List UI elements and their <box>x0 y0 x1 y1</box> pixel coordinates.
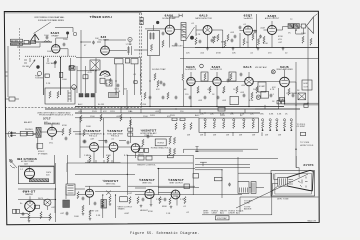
mid tuner parts <box>109 78 120 87</box>
hv top wires <box>18 163 56 222</box>
osc vertical wire <box>70 58 72 90</box>
svg-text:105V: 105V <box>150 115 155 117</box>
antenna terminal boxes <box>11 39 23 42</box>
svg-text:6.8K: 6.8K <box>269 114 274 116</box>
board left small marks <box>196 147 199 152</box>
fine tuning arrow <box>29 60 35 68</box>
6au6 wires <box>170 17 182 48</box>
svg-text:VERT: VERT <box>138 147 144 149</box>
crt pin dots <box>292 179 293 185</box>
junction dots sound bus <box>207 47 284 48</box>
bottom strip parts <box>66 210 92 220</box>
svg-text:ADJ: ADJ <box>236 211 240 214</box>
svg-text:680K: 680K <box>162 206 167 208</box>
svg-text:1 MEG: 1 MEG <box>156 199 163 201</box>
svg-text:CH SEL: CH SEL <box>22 66 30 68</box>
if transformer 2 <box>229 72 236 81</box>
svg-text:½6SN7GT: ½6SN7GT <box>141 128 157 132</box>
damper area wires <box>18 190 55 218</box>
svg-text:HEIGHT CONTROL: HEIGHT CONTROL <box>137 165 156 167</box>
rf section caps <box>46 36 66 47</box>
svg-text:AGC: AGC <box>78 103 83 106</box>
svg-text:3.3K: 3.3K <box>277 114 282 116</box>
svg-text:PIN 4,5,6: PIN 4,5,6 <box>111 136 119 138</box>
sound bus extension <box>183 47 195 49</box>
svg-text:21YP4: 21YP4 <box>303 163 313 167</box>
video amp peaking box <box>261 91 269 98</box>
mixer column top bus <box>77 70 94 72</box>
strip divider wire <box>180 58 318 60</box>
svg-text:M: M <box>129 39 131 41</box>
tuner top boxes right <box>140 18 143 21</box>
svg-text:B+135: B+135 <box>98 104 105 106</box>
svg-text:250V: 250V <box>170 115 175 117</box>
svg-text:10K: 10K <box>232 53 236 55</box>
damper right dark box <box>63 200 70 208</box>
tuner bottom left box <box>9 97 15 101</box>
junction dots rails <box>95 106 249 114</box>
tuner left drop <box>7 46 9 97</box>
sound trap parts <box>154 73 163 84</box>
radio transformer <box>36 127 41 137</box>
power plug <box>8 131 16 138</box>
CRT internal marks <box>298 177 308 188</box>
svg-text:.0047: .0047 <box>124 213 130 215</box>
sync grid caps <box>84 140 130 145</box>
tube V17 vert osc <box>145 189 154 198</box>
peaking coil box <box>280 97 285 101</box>
video amp rail up <box>295 62 297 104</box>
osc boxes above <box>115 59 124 64</box>
6al5 wires <box>196 25 223 48</box>
svg-text:OF 6SN7: OF 6SN7 <box>297 126 307 128</box>
svg-text:1st VIDEO IF: 1st VIDEO IF <box>185 68 197 71</box>
svg-text:470K: 470K <box>216 53 221 55</box>
mixer bottom boxes <box>79 94 94 98</box>
tuner dashed enclosure <box>5 13 142 107</box>
svg-text:AM ANT: AM ANT <box>24 121 32 124</box>
sound section components <box>213 33 265 43</box>
mixer grid wire <box>81 30 101 58</box>
svg-text:54C9: 54C9 <box>38 198 44 200</box>
svg-text:ION TRAP: ION TRAP <box>217 217 227 220</box>
B+ distribution resistor board <box>199 118 259 132</box>
svg-text:RATIO DET: RATIO DET <box>172 45 184 48</box>
CRT gun <box>278 177 288 186</box>
crt socket pins <box>289 180 292 185</box>
speaker cone <box>306 17 313 34</box>
mixer cap <box>92 41 95 45</box>
contrast box <box>298 93 306 100</box>
top coil <box>179 14 182 17</box>
CRT funnel <box>288 170 314 191</box>
tube V18 vert output <box>171 190 180 199</box>
1st IF transformer box <box>148 31 160 56</box>
svg-text:1W: 1W <box>278 135 281 137</box>
sound takeoff transformer <box>181 23 186 41</box>
tube V11 <box>90 143 99 152</box>
test circle X <box>271 70 275 74</box>
twin lead lower wire <box>17 43 40 47</box>
wire damper to vert <box>67 172 85 189</box>
svg-text:HOR: HOR <box>304 83 309 85</box>
third stage column <box>130 120 132 143</box>
wire rf plate <box>56 35 68 57</box>
svg-text:47K: 47K <box>272 87 276 89</box>
crt bottom wires <box>272 186 278 197</box>
shield dot <box>66 32 69 35</box>
svg-text:CONTRAST: CONTRAST <box>286 92 298 95</box>
svg-text:100K: 100K <box>74 216 79 218</box>
4.5 MC trap box <box>258 82 266 92</box>
sync feed parts <box>83 129 86 143</box>
speaker wires <box>296 27 304 35</box>
yoke plug boxes <box>238 182 249 194</box>
svg-text:18K: 18K <box>260 114 264 116</box>
left border ticks <box>5 72 8 76</box>
tube V13 <box>131 144 140 153</box>
border frame <box>4 11 319 225</box>
mixer box a <box>83 75 88 79</box>
third stage boxes <box>128 128 133 131</box>
vert enclosure top <box>67 163 193 172</box>
bottom component clusters <box>77 192 172 209</box>
coil tap row <box>25 55 76 57</box>
rail fuse box <box>218 108 225 112</box>
svg-text:FOR A SECTOR PANEL WIRES: FOR A SECTOR PANEL WIRES <box>38 19 65 22</box>
radio row wire <box>5 133 36 135</box>
left boxes <box>13 209 16 213</box>
vert section top rail <box>127 155 193 157</box>
hv cage box marks <box>68 186 74 194</box>
svg-text:IF TRANS: IF TRANS <box>38 152 48 155</box>
diagonal wire <box>236 174 308 208</box>
svg-text:250V: 250V <box>92 111 97 113</box>
svg-text:VERT OSC: VERT OSC <box>142 182 152 184</box>
video out box <box>302 80 312 90</box>
right rails <box>284 103 318 105</box>
sound section wiring <box>195 47 318 49</box>
svg-text:CENT: CENT <box>212 212 218 214</box>
HV lead hatched <box>29 179 48 182</box>
balun boxes on antenna wire <box>24 40 29 43</box>
trimmer circle <box>73 32 77 36</box>
diagonal adj <box>187 27 195 39</box>
svg-text:SOUND TRAP: SOUND TRAP <box>152 68 166 71</box>
tube V19 sync inv <box>86 189 94 197</box>
svg-text:.0047: .0047 <box>260 28 266 30</box>
svg-text:270K: 270K <box>301 33 306 35</box>
tuner if can drop <box>95 70 127 109</box>
vert wires <box>78 186 177 205</box>
svg-text:Figure 55. Schematic Diagram.: Figure 55. Schematic Diagram. <box>130 231 200 236</box>
svg-text:OSC MIXER: OSC MIXER <box>98 39 109 41</box>
svg-text:10K: 10K <box>95 38 99 40</box>
tube V12 <box>109 143 118 152</box>
svg-text:ADJ: ADJ <box>220 211 224 214</box>
ratio det transformer hatch <box>181 25 185 38</box>
svg-text:135V: 135V <box>110 111 115 113</box>
audio coupling <box>239 26 260 46</box>
svg-text:DAMPER: DAMPER <box>25 193 34 196</box>
long wires mid <box>133 136 172 138</box>
vert output transformer <box>120 197 128 202</box>
svg-text:2W: 2W <box>239 135 242 137</box>
voice coil <box>301 24 306 28</box>
takeoff drop wire <box>183 40 185 107</box>
svg-text:MA-1579: MA-1579 <box>308 220 317 223</box>
svg-text:TUNING: TUNING <box>35 77 43 79</box>
video if wiring <box>191 72 285 107</box>
tube V14 radio <box>48 127 57 136</box>
bottom boxes row <box>109 93 119 98</box>
svg-text:470K: 470K <box>263 43 268 45</box>
svg-text:HORIZ COILS: HORIZ COILS <box>300 145 314 147</box>
svg-text:1 MEG: 1 MEG <box>84 155 91 157</box>
svg-text:YOKE: YOKE <box>244 203 250 205</box>
svg-text:100K: 100K <box>47 51 52 53</box>
svg-text:47K: 47K <box>156 89 160 91</box>
svg-text:PIN 1,2,3: PIN 1,2,3 <box>145 135 153 137</box>
svg-text:PIN 1,2,3: PIN 1,2,3 <box>89 136 97 138</box>
svg-text:VIDEO AMPLIFIER: VIDEO AMPLIFIER <box>276 68 293 71</box>
svg-text:OUT: OUT <box>304 87 309 89</box>
svg-text:1W: 1W <box>252 135 255 137</box>
svg-text:2W: 2W <box>213 135 216 137</box>
svg-text:47K: 47K <box>103 111 107 113</box>
cap cluster <box>54 60 57 64</box>
rf top wire <box>55 28 73 33</box>
svg-text:1 TVM: 1 TVM <box>125 44 131 46</box>
svg-text:VID DET AGC: VID DET AGC <box>255 66 268 69</box>
svg-text:B+250: B+250 <box>140 104 147 106</box>
box left bottom <box>100 78 105 83</box>
hold control chains <box>169 137 176 155</box>
6sq7 wires <box>240 31 257 48</box>
if interstage transformers <box>201 72 208 81</box>
svg-text:HV RECTIFIER: HV RECTIFIER <box>21 161 35 163</box>
svg-text:5717: 5717 <box>43 117 51 121</box>
vert area extra <box>101 200 107 209</box>
hv cage right box <box>66 184 75 195</box>
vert section wiring <box>55 155 194 195</box>
osc box <box>45 88 75 104</box>
tuner feed resistors <box>80 114 122 122</box>
6j6 plate wires <box>105 40 130 51</box>
svg-text:22K: 22K <box>104 84 108 86</box>
svg-text:25K: 25K <box>200 114 204 116</box>
osc verticals <box>116 58 141 95</box>
osc component mid <box>125 59 129 64</box>
svg-text:2.2K: 2.2K <box>180 199 185 201</box>
IF strip components <box>182 73 258 94</box>
if feed wire <box>134 25 165 50</box>
yoke wire <box>249 187 264 189</box>
junction dots tuner <box>43 39 309 200</box>
box bottom ticks <box>88 160 112 163</box>
IF can at tuner output <box>90 60 100 70</box>
decoupling row <box>149 96 220 100</box>
svg-text:1W: 1W <box>226 135 229 137</box>
svg-text:TRANS: TRANS <box>118 208 126 211</box>
box on wire 43 <box>45 74 49 77</box>
svg-text:12K: 12K <box>250 114 254 116</box>
tuner top line <box>5 12 142 14</box>
svg-text:DRIVE: DRIVE <box>229 212 236 214</box>
sync bottom resistors <box>89 156 109 163</box>
right components of radio row <box>62 128 71 140</box>
svg-text:CENT: CENT <box>203 212 209 214</box>
matching box <box>31 40 36 43</box>
wire antenna <box>10 42 52 44</box>
vert right boxes <box>184 184 190 189</box>
if out resistors <box>144 92 169 99</box>
mixer circle <box>72 85 77 90</box>
video amp box edges <box>255 88 279 109</box>
svg-text:10K: 10K <box>253 89 257 91</box>
third stage resistor <box>129 119 131 126</box>
box on wire 60 <box>59 72 62 77</box>
cap w lead <box>54 61 57 68</box>
tuner bottom left wire <box>5 98 19 100</box>
horiz osc coil box <box>155 139 166 146</box>
crt feed wire <box>195 157 278 182</box>
svg-text:PHONO: PHONO <box>25 129 33 131</box>
svg-text:½6SN7GT: ½6SN7GT <box>107 129 123 133</box>
svg-text:100K: 100K <box>86 126 91 128</box>
osc box on wire <box>70 66 74 69</box>
if box top cap <box>162 32 165 36</box>
vert parts <box>82 197 186 216</box>
long vertical right wire <box>307 28 309 103</box>
output transformer <box>288 24 299 31</box>
sync interstage wires <box>75 134 126 141</box>
dark dot 2 <box>156 21 159 24</box>
osc coil arc <box>100 71 110 76</box>
sync verticals <box>80 118 104 158</box>
stray resistors left of board <box>172 118 192 130</box>
svg-text:15K: 15K <box>230 114 234 116</box>
test point M <box>128 37 132 41</box>
board drop verticals <box>184 132 263 153</box>
note pointer <box>34 22 51 33</box>
ant junction dot <box>19 43 20 44</box>
tuner left dashed edge <box>19 28 21 60</box>
svg-text:68K: 68K <box>221 42 225 44</box>
tuner divider wire <box>76 57 141 59</box>
right column resistors <box>302 36 312 45</box>
svg-text:22K: 22K <box>186 53 190 55</box>
video amp box pair <box>277 101 280 104</box>
coil box right <box>69 66 75 70</box>
comp on wire <box>134 81 137 84</box>
interstage coil <box>200 64 204 68</box>
svg-text:10K: 10K <box>128 111 132 113</box>
svg-text:DEFL YOKE: DEFL YOKE <box>277 199 289 201</box>
svg-text:470K: 470K <box>278 36 283 38</box>
svg-text:470K: 470K <box>62 125 67 127</box>
svg-text:VERT OUTPUT: VERT OUTPUT <box>169 182 183 184</box>
svg-text:1W: 1W <box>200 135 203 137</box>
tube V15 1B3 <box>25 169 35 179</box>
6aq5 wires <box>264 21 288 48</box>
svg-text:2.2K: 2.2K <box>46 83 51 85</box>
board right group arrows <box>262 129 292 131</box>
dark dot <box>190 36 194 40</box>
svg-text:AUDIO OUTPUT: AUDIO OUTPUT <box>265 17 280 20</box>
vert osc wire <box>158 186 199 188</box>
tube V16 <box>25 201 36 212</box>
radio row wires <box>33 124 81 140</box>
crt grid wires <box>272 174 278 195</box>
damper parts <box>22 212 43 219</box>
svg-text:RATIO DETECTOR: RATIO DETECTOR <box>195 17 212 20</box>
b plus drops row1 <box>81 107 141 115</box>
svg-text:1.5K: 1.5K <box>166 213 171 215</box>
svg-text:4.7K: 4.7K <box>88 72 93 74</box>
svg-text:OSC ADJ: OSC ADJ <box>46 62 55 65</box>
sync strip extra wiring <box>80 147 136 163</box>
outer boxes <box>271 171 315 196</box>
bottom right wiring <box>135 173 318 215</box>
svg-text:2nd VIDEO IF: 2nd VIDEO IF <box>210 69 223 71</box>
ion trap box <box>216 216 230 220</box>
sync top rail <box>75 117 199 119</box>
svg-text:TO YOKE: TO YOKE <box>300 142 310 144</box>
afc parts <box>142 135 150 147</box>
mixer plate cluster <box>127 46 132 55</box>
mixer column verticals <box>77 58 96 93</box>
video out row caps <box>243 92 273 99</box>
ratio det parts <box>195 34 237 47</box>
antenna input <box>28 34 42 42</box>
tuner vertical wires <box>44 57 61 95</box>
slug dot <box>36 65 39 68</box>
svg-text:6AL5: 6AL5 <box>243 65 251 69</box>
svg-text:VC: VC <box>288 33 291 35</box>
rf grid coil <box>44 41 50 42</box>
grounds under sound bus <box>206 48 284 51</box>
svg-text:2.2K: 2.2K <box>196 34 201 36</box>
svg-text:RF AMP: RF AMP <box>51 34 59 37</box>
radio second box <box>28 131 34 135</box>
svg-text:2W: 2W <box>187 135 190 137</box>
discharge diode <box>106 191 111 196</box>
svg-text:6T8 AM-FM DET: 6T8 AM-FM DET <box>44 122 60 125</box>
B+ rails <box>45 107 300 114</box>
svg-text:4.7K: 4.7K <box>270 89 275 91</box>
svg-text:470K: 470K <box>148 211 153 213</box>
brightness boxes <box>214 177 222 180</box>
svg-text:1st AUDIO: 1st AUDIO <box>244 17 253 20</box>
mid tuner box <box>106 80 112 86</box>
video amp cathode parts <box>288 88 295 97</box>
svg-text:3.9K: 3.9K <box>249 100 254 102</box>
svg-text:4.5MC: 4.5MC <box>259 86 266 88</box>
circled X cathode <box>256 95 260 99</box>
power entry <box>9 159 17 168</box>
svg-text:HORIZONTAL HOLD: HORIZONTAL HOLD <box>151 146 171 149</box>
6au6 top wire <box>285 70 297 103</box>
svg-text:330K: 330K <box>212 37 217 39</box>
svg-text:3.3K: 3.3K <box>96 215 101 217</box>
rail drop wires <box>160 105 265 113</box>
lower mid rails <box>195 165 272 198</box>
svg-text:FIRST WIRING CODES REAR WALL: FIRST WIRING CODES REAR WALL <box>35 16 65 19</box>
svg-text:5.6K: 5.6K <box>240 114 245 116</box>
CRT top wire <box>296 156 299 177</box>
height control <box>138 156 144 160</box>
